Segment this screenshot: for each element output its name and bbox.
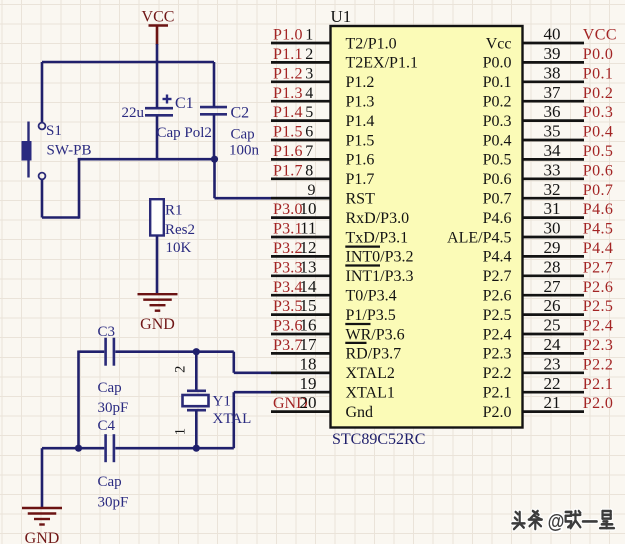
svg-text:XTAL1: XTAL1 [346, 385, 395, 402]
pin 3 line (left) [271, 80, 331, 83]
svg-text:P1.1: P1.1 [273, 46, 303, 63]
pin 36 line (right) [523, 119, 584, 122]
overline bar above WR [345, 323, 370, 325]
svg-text:@: @ [548, 510, 565, 532]
svg-text:P3.3: P3.3 [273, 259, 303, 276]
pin 39 line (right) [523, 61, 584, 64]
svg-text:100n: 100n [229, 143, 260, 159]
svg-text:10K: 10K [166, 240, 192, 256]
switch S1 SW-PB [22, 122, 46, 180]
svg-text:P0.1: P0.1 [583, 65, 614, 82]
svg-text:17: 17 [300, 335, 318, 354]
svg-text:XTAL2: XTAL2 [346, 365, 395, 382]
svg-text:Res2: Res2 [165, 222, 195, 238]
svg-text:C4: C4 [98, 418, 116, 434]
pin 12 line (left) [271, 255, 331, 258]
svg-text:33: 33 [544, 160, 561, 179]
wire: XTAL1 net bottom horizontal [42, 392, 331, 448]
svg-text:P0.5: P0.5 [483, 152, 512, 169]
junction dot at reset node / C2 [211, 156, 218, 163]
svg-text:6: 6 [305, 124, 313, 141]
svg-text:32: 32 [544, 180, 561, 199]
svg-text:16: 16 [300, 316, 317, 335]
pin 38 line (right) [523, 80, 584, 83]
svg-text:P1.2: P1.2 [273, 65, 303, 82]
capacitor C3 (plates) [106, 338, 114, 366]
pin 20 line (left) [271, 410, 331, 413]
overline bar (INT1 net, under INT0) [345, 264, 380, 266]
svg-text:Cap: Cap [98, 380, 122, 396]
wire: C2 top lead [213, 62, 216, 107]
pin 1 line (left) [271, 42, 331, 45]
svg-text:P0.2: P0.2 [583, 85, 614, 102]
pin 7 line (left) [271, 158, 331, 161]
wire: reset node to RST pin 9 [215, 159, 331, 198]
watermark 头条@张一星 [512, 510, 614, 532]
svg-text:P2.3: P2.3 [583, 337, 614, 354]
pin 24 line (right) [523, 352, 584, 355]
svg-text:28: 28 [544, 257, 561, 276]
pin 19 line (left) [271, 391, 331, 394]
svg-text:P0.7: P0.7 [583, 182, 614, 199]
svg-text:12: 12 [300, 238, 317, 257]
svg-text:RST: RST [346, 191, 376, 208]
svg-text:Cap: Cap [231, 127, 255, 143]
svg-text:P1.0: P1.0 [273, 27, 303, 44]
svg-text:P2.1: P2.1 [583, 376, 614, 393]
svg-text:P3.5: P3.5 [273, 298, 303, 315]
svg-text:TxD/P3.1: TxD/P3.1 [346, 229, 409, 246]
wire: switch top stub [41, 62, 44, 123]
pin 18 line (left) [271, 371, 331, 374]
wire: C1 bottom lead to reset node [156, 116, 159, 161]
svg-text:23: 23 [544, 354, 561, 373]
pin 14 line (left) [271, 294, 331, 297]
svg-text:P3.0: P3.0 [273, 201, 303, 218]
pin 21 line (right) [523, 410, 584, 413]
svg-text:P3.6: P3.6 [273, 318, 303, 335]
svg-text:P0.1: P0.1 [483, 74, 512, 91]
svg-text:P2.3: P2.3 [483, 346, 512, 363]
pin 22 line (right) [523, 391, 584, 394]
pin 8 line (left) [271, 177, 331, 180]
svg-text:S1: S1 [46, 123, 62, 139]
svg-text:13: 13 [300, 257, 317, 276]
pin 29 line (right) [523, 255, 584, 258]
pin 5 line (left) [271, 119, 331, 122]
svg-text:P2.7: P2.7 [483, 268, 512, 285]
svg-text:P4.5: P4.5 [583, 221, 614, 238]
wire: ground stub bottom-left [41, 448, 44, 507]
op IC body U1 STC89C52RC [331, 26, 523, 428]
wire: left ground-side vertical for C3/C4 [77, 351, 80, 449]
svg-text:P3.1: P3.1 [273, 221, 303, 238]
svg-text:P2.4: P2.4 [583, 318, 614, 335]
capacitor C4 (plates) [106, 434, 114, 462]
pin 28 line (right) [523, 274, 584, 277]
svg-text:P0.0: P0.0 [583, 46, 614, 63]
svg-text:30: 30 [544, 219, 561, 238]
svg-text:24: 24 [544, 335, 562, 354]
svg-text:WR/P3.6: WR/P3.6 [346, 326, 405, 343]
svg-text:39: 39 [544, 44, 561, 63]
ground symbol bottom-left [22, 507, 62, 509]
svg-text:C2: C2 [231, 105, 250, 122]
pin 11 line (left) [271, 236, 331, 239]
pin 40 line (right) [523, 42, 584, 45]
svg-text:1: 1 [305, 27, 313, 44]
svg-text:4: 4 [305, 85, 313, 102]
wire: reset node horizontal [78, 158, 215, 161]
svg-text:VCC: VCC [583, 27, 617, 44]
svg-text:2: 2 [305, 46, 313, 63]
wire: VCC rail from switch to C2 [42, 61, 214, 64]
pin 2 line (left) [271, 61, 331, 64]
pin 10 line (left) [271, 216, 331, 219]
svg-text:GND: GND [25, 530, 60, 544]
svg-text:ALE/P4.5: ALE/P4.5 [447, 229, 511, 246]
pin 15 line (left) [271, 313, 331, 316]
svg-text:P1/P3.5: P1/P3.5 [346, 307, 396, 324]
svg-text:Gnd: Gnd [346, 404, 374, 421]
pin 31 line (right) [523, 216, 584, 219]
svg-text:R1: R1 [165, 203, 183, 219]
svg-text:T0/P3.4: T0/P3.4 [346, 288, 397, 305]
overline bar (INT0 net, under TxD) [345, 246, 380, 248]
svg-text:P0.3: P0.3 [483, 113, 512, 130]
power symbol VCC (bar and stub) [149, 26, 169, 63]
svg-text:C1: C1 [175, 95, 194, 112]
svg-text:P3.2: P3.2 [273, 240, 303, 257]
svg-text:8: 8 [305, 162, 313, 179]
svg-text:37: 37 [544, 83, 562, 102]
wire: XTAL2 net top horizontal [79, 352, 331, 373]
svg-text:P2.7: P2.7 [583, 259, 614, 276]
svg-text:27: 27 [544, 277, 562, 296]
svg-text:P2.0: P2.0 [483, 404, 512, 421]
svg-text:P1.7: P1.7 [273, 162, 303, 179]
svg-text:P0.3: P0.3 [583, 104, 614, 121]
svg-text:P3.4: P3.4 [273, 279, 303, 296]
svg-text:P2.4: P2.4 [483, 326, 512, 343]
svg-text:P0.0: P0.0 [483, 55, 512, 72]
svg-text:20: 20 [300, 393, 317, 412]
pin 9 line (left) [271, 197, 331, 200]
pin 23 line (right) [523, 371, 584, 374]
svg-text:P4.4: P4.4 [583, 240, 614, 257]
svg-text:RD/P3.7: RD/P3.7 [346, 346, 402, 363]
svg-text:18: 18 [300, 354, 317, 373]
pin 35 line (right) [523, 139, 584, 142]
pin 17 line (left) [271, 352, 331, 355]
svg-text:Y1: Y1 [213, 394, 231, 410]
svg-text:STC89C52RC: STC89C52RC [332, 431, 425, 448]
pin 13 line (left) [271, 274, 331, 277]
pin 32 line (right) [523, 197, 584, 200]
svg-text:35: 35 [544, 122, 561, 141]
svg-text:5: 5 [305, 104, 313, 121]
svg-text:22: 22 [544, 374, 561, 393]
svg-text:Vcc: Vcc [486, 35, 512, 52]
svg-text:15: 15 [300, 296, 317, 315]
svg-text:P0.7: P0.7 [483, 191, 512, 208]
svg-text:30pF: 30pF [98, 400, 129, 416]
svg-text:GND: GND [140, 316, 175, 333]
wire: R1 bottom lead [156, 236, 159, 295]
svg-text:U1: U1 [331, 7, 352, 26]
ground symbol below R1 [138, 293, 178, 295]
svg-text:INT0/P3.2: INT0/P3.2 [346, 249, 414, 266]
svg-text:P1.4: P1.4 [273, 104, 303, 121]
svg-text:21: 21 [544, 393, 561, 412]
svg-text:2: 2 [173, 366, 189, 373]
crystal Y1 [183, 352, 209, 449]
svg-text:P2.2: P2.2 [583, 356, 614, 373]
svg-text:P1.5: P1.5 [346, 132, 375, 149]
pin 26 line (right) [523, 313, 584, 316]
pin 34 line (right) [523, 158, 584, 161]
svg-text:P0.4: P0.4 [583, 124, 614, 141]
junction dot XTAL2 node [193, 348, 200, 355]
pin 6 line (left) [271, 139, 331, 142]
svg-text:36: 36 [544, 102, 561, 121]
svg-text:38: 38 [544, 63, 561, 82]
svg-text:C3: C3 [98, 324, 116, 340]
svg-text:T2EX/P1.1: T2EX/P1.1 [346, 55, 418, 72]
svg-text:10: 10 [300, 199, 317, 218]
pin 4 line (left) [271, 100, 331, 103]
svg-text:P2.6: P2.6 [483, 288, 512, 305]
svg-text:P4.6: P4.6 [483, 210, 512, 227]
svg-text:9: 9 [308, 182, 316, 199]
svg-text:P0.4: P0.4 [483, 132, 512, 149]
wire: switch bottom to reset node [42, 158, 79, 219]
svg-text:P2.5: P2.5 [583, 298, 614, 315]
pin 16 line (left) [271, 333, 331, 336]
svg-text:1: 1 [173, 428, 189, 435]
junction dot XTAL1 node [193, 445, 200, 452]
pin 33 line (right) [523, 177, 584, 180]
svg-text:P4.6: P4.6 [583, 201, 614, 218]
svg-text:P2.1: P2.1 [483, 385, 512, 402]
svg-text:SW-PB: SW-PB [47, 142, 92, 158]
svg-text:P2.5: P2.5 [483, 307, 512, 324]
svg-text:RxD/P3.0: RxD/P3.0 [346, 210, 410, 227]
pin 25 line (right) [523, 333, 584, 336]
svg-text:14: 14 [300, 277, 318, 296]
capacitor C2 (plates) [200, 107, 227, 114]
svg-text:40: 40 [544, 25, 561, 44]
svg-text:P2.6: P2.6 [583, 279, 614, 296]
svg-text:P2.0: P2.0 [583, 395, 614, 412]
svg-text:34: 34 [544, 141, 562, 160]
svg-text:P1.3: P1.3 [273, 85, 303, 102]
wire: C2 bottom lead to reset node [213, 115, 216, 160]
svg-text:26: 26 [544, 296, 561, 315]
pin 37 line (right) [523, 100, 584, 103]
svg-text:P1.7: P1.7 [346, 171, 375, 188]
svg-text:Cap Pol2: Cap Pol2 [157, 125, 212, 141]
svg-text:INT1/P3.3: INT1/P3.3 [346, 268, 414, 285]
svg-text:VCC: VCC [142, 8, 175, 25]
svg-text:7: 7 [305, 143, 313, 160]
svg-text:11: 11 [300, 219, 316, 238]
svg-text:Cap: Cap [98, 474, 122, 490]
svg-text:P1.5: P1.5 [273, 124, 303, 141]
svg-text:P3.7: P3.7 [273, 337, 303, 354]
svg-text:P1.2: P1.2 [346, 74, 375, 91]
capacitor C1 (electrolytic, plates and polarity) [145, 95, 173, 116]
svg-text:P2.2: P2.2 [483, 365, 512, 382]
svg-text:22u: 22u [122, 105, 145, 121]
svg-text:P0.6: P0.6 [583, 162, 614, 179]
svg-text:P1.3: P1.3 [346, 94, 375, 111]
svg-text:P4.4: P4.4 [483, 249, 512, 266]
svg-text:19: 19 [300, 374, 317, 393]
svg-text:T2/P1.0: T2/P1.0 [346, 35, 397, 52]
pin 30 line (right) [523, 236, 584, 239]
svg-text:XTAL: XTAL [213, 411, 252, 427]
svg-text:25: 25 [544, 316, 561, 335]
svg-text:3: 3 [305, 65, 313, 82]
overline bar above RD [345, 342, 366, 344]
resistor R1 [150, 199, 164, 235]
pin 27 line (right) [523, 294, 584, 297]
svg-text:29: 29 [544, 238, 561, 257]
wire: C1 top lead [156, 62, 159, 108]
svg-text:P0.2: P0.2 [483, 94, 512, 111]
svg-text:30pF: 30pF [98, 494, 129, 510]
junction dot at left vertical / bottom wire [75, 445, 82, 452]
svg-text:P0.6: P0.6 [483, 171, 512, 188]
svg-text:31: 31 [544, 199, 561, 218]
svg-text:P1.6: P1.6 [346, 152, 375, 169]
svg-text:P0.5: P0.5 [583, 143, 614, 160]
svg-text:P1.6: P1.6 [273, 143, 303, 160]
svg-text:P1.4: P1.4 [346, 113, 375, 130]
